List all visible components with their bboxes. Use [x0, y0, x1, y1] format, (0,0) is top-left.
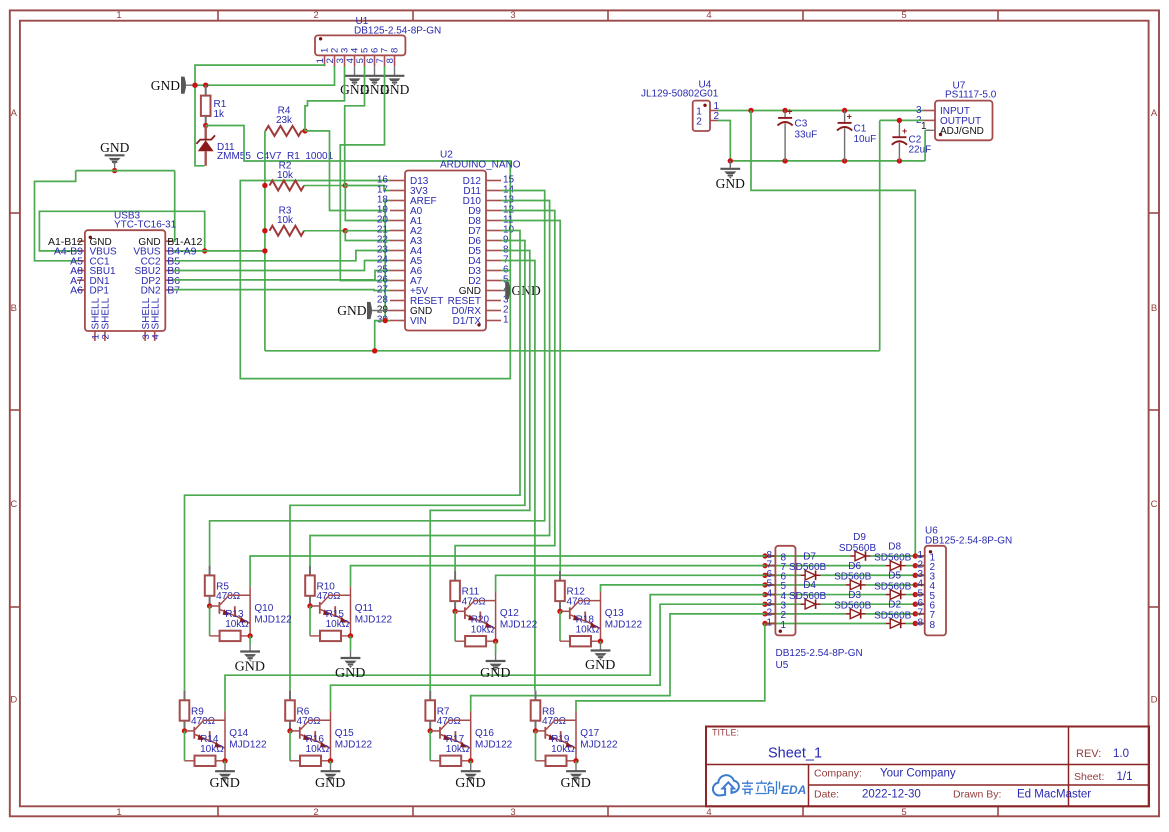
- wire D5 to R7 base feed: [430, 251, 530, 691]
- ground symbol Q11: [350, 636, 352, 651]
- junction input rail / U6 feed: [748, 108, 753, 113]
- wire R3 right down to A3 pin22: [345, 231, 390, 241]
- svg-text:5: 5: [901, 807, 906, 818]
- wire U1 pin3 to R4 right: [305, 66, 345, 131]
- junction GND rail / C2: [897, 158, 902, 163]
- svg-text:Company:: Company:: [814, 768, 862, 780]
- U5 pin1 marker: [779, 630, 782, 633]
- frame ticks bottom: [217, 806, 219, 816]
- diode D5 SD560B: [886, 594, 891, 596]
- resistor R20 10k base-emitter: [454, 611, 456, 641]
- svg-text:SD560B: SD560B: [834, 572, 872, 583]
- ground symbol Q14: [224, 761, 226, 764]
- connector U6 DB125-2.54-8P-GN box: [925, 546, 946, 636]
- junction R3 right: [343, 228, 348, 233]
- ground symbol Q16: [470, 761, 472, 764]
- diode D4 SD560B: [801, 603, 806, 605]
- svg-text:C: C: [10, 499, 17, 510]
- svg-text:DB125-2.54-8P-GN: DB125-2.54-8P-GN: [925, 536, 1012, 547]
- svg-text:D9: D9: [853, 532, 866, 543]
- wire Q17 collector to row1: [576, 624, 765, 712]
- junction GND rail / C3: [782, 158, 787, 163]
- wire D10 to R10 base feed: [310, 201, 550, 566]
- frame ticks right: [1149, 212, 1159, 214]
- svg-text:4: 4: [706, 807, 711, 818]
- svg-text:B7: B7: [167, 285, 180, 297]
- svg-text:Date:: Date:: [814, 789, 839, 801]
- wire USB top GND rail: [76, 170, 175, 172]
- wire D2 stub to column: [501, 280, 510, 282]
- svg-text:B: B: [11, 303, 17, 314]
- junction R9 bottom base node: [182, 728, 187, 733]
- wire USB SBU2 to A5 pin24: [173, 261, 390, 271]
- wire LED row 4 left segment: [765, 594, 886, 596]
- junction Q15 emitter node: [328, 758, 333, 763]
- wire U4 pin2 down to GND rail: [718, 121, 730, 161]
- resistor R12 470: [559, 571, 561, 581]
- USB3 pin1 marker: [89, 236, 92, 239]
- wire LED row 3 right segment: [821, 603, 916, 605]
- svg-text:Q11: Q11: [355, 603, 374, 614]
- svg-text:2: 2: [313, 807, 318, 818]
- ground bar at U2 pin29 left: [367, 302, 372, 319]
- wire LED row 4 right segment: [906, 594, 916, 596]
- svg-text:10uF: 10uF: [854, 134, 877, 145]
- U2 pin1 marker: [477, 323, 480, 326]
- svg-text:8: 8: [930, 620, 936, 631]
- transistor Q17 MJD122: [536, 730, 546, 732]
- U6 pin1 marker: [929, 550, 932, 553]
- svg-text:JL129-50802G01: JL129-50802G01: [641, 89, 719, 100]
- junction U5 pin row 2: [762, 611, 767, 616]
- junction GND rail / U4 drop: [728, 158, 733, 163]
- wire LED row 2 left segment: [765, 613, 846, 615]
- U1 pin1 marker: [319, 37, 322, 40]
- U2 right pin stubs: [486, 180, 501, 182]
- resistor R6 470: [289, 691, 291, 701]
- junction R2 right: [343, 183, 348, 188]
- wire USB A4-B9 VBUS loop: [39, 211, 204, 251]
- resistor R8 470: [535, 691, 537, 701]
- svg-text:GND: GND: [455, 776, 485, 791]
- svg-text:VIN: VIN: [410, 316, 427, 327]
- svg-text:Q12: Q12: [500, 608, 519, 619]
- svg-text:SD560B: SD560B: [874, 610, 912, 621]
- svg-text:1: 1: [116, 807, 121, 818]
- ground symbol at U1 pin 6: [374, 66, 376, 76]
- svg-text:MJD122: MJD122: [335, 739, 373, 750]
- resistor R2 10k: [270, 181, 305, 191]
- capacitor C2 22uF: [898, 120, 900, 137]
- junction 5V rail / VIN branch: [372, 348, 377, 353]
- svg-text:D5: D5: [888, 571, 901, 582]
- svg-text:DP1: DP1: [90, 286, 110, 297]
- svg-text:10k: 10k: [277, 170, 294, 181]
- transistor Q16 MJD122: [430, 730, 440, 732]
- wire R3 right to A2 pin21: [345, 230, 390, 232]
- wire USB VBUS row to 5V column: [173, 250, 265, 252]
- resistor R10 470: [309, 566, 311, 576]
- resistor R1 1k: [205, 85, 207, 95]
- svg-text:1: 1: [767, 617, 773, 628]
- junction U5 pin row 6: [762, 573, 767, 578]
- svg-text:SHELL: SHELL: [101, 297, 112, 329]
- wire U1 pin7 to A7 pin26: [340, 66, 390, 281]
- U4 pin stubs and numbers: [710, 110, 718, 112]
- svg-text:SD560B: SD560B: [874, 581, 912, 592]
- svg-text:+: +: [787, 107, 792, 117]
- svg-text:8: 8: [385, 58, 396, 63]
- svg-text:GND: GND: [512, 283, 541, 298]
- wire Q13 collector to row5: [601, 585, 766, 592]
- junction Q13 emitter node: [598, 639, 603, 644]
- junction VBUS loop: [202, 248, 207, 253]
- resistor R15 10k base-emitter: [309, 606, 311, 636]
- junction Q14 emitter node: [222, 758, 227, 763]
- svg-text:GND: GND: [315, 776, 345, 791]
- resistor R11 470: [454, 571, 456, 581]
- svg-text:DB125-2.54-8P-GN: DB125-2.54-8P-GN: [354, 26, 441, 37]
- wire D9 to R11 base feed: [455, 211, 555, 572]
- svg-text:PS1117-5.0: PS1117-5.0: [945, 90, 997, 101]
- logo JLC EDA: [713, 775, 806, 797]
- wire LED row 7 right segment: [906, 565, 916, 567]
- svg-text:SD560B: SD560B: [834, 601, 872, 612]
- svg-text:SD560B: SD560B: [789, 591, 827, 602]
- 5V rail horizontal: [265, 350, 880, 352]
- wire LED row 6 right segment: [821, 574, 916, 576]
- wire power GND rail: [730, 160, 925, 162]
- junction U6 pin row 5: [913, 592, 918, 597]
- wire D3 stub to column: [501, 270, 510, 272]
- svg-text:Sheet:: Sheet:: [1074, 771, 1104, 783]
- junction R6 bottom base node: [287, 728, 292, 733]
- junction VIN / AREF column: [383, 318, 388, 323]
- junction R10 bottom base node: [307, 603, 312, 608]
- USB3 pin stubs: [77, 240, 85, 242]
- svg-text:ADJ/GND: ADJ/GND: [940, 126, 984, 137]
- wire D4 to R8 base feed: [501, 261, 535, 691]
- diode D8 SD560B: [886, 565, 891, 567]
- svg-text:2: 2: [696, 116, 702, 127]
- ground symbol Q12: [495, 641, 497, 653]
- wire LED row 1 left segment: [765, 622, 886, 624]
- svg-text:10kΩ: 10kΩ: [551, 744, 575, 755]
- ground symbol left of R1: [181, 77, 186, 94]
- junction input rail / C1: [842, 108, 847, 113]
- connector U5 DB125-2.54-8P-GN box: [775, 546, 795, 636]
- wire GND rail to USB A5 pin (left loop): [35, 171, 78, 261]
- svg-text:REV:: REV:: [1076, 748, 1101, 760]
- wire R1 bottom across to D2/D3/D13 column: [206, 126, 511, 379]
- svg-text:GND: GND: [151, 78, 180, 93]
- frame ticks left: [10, 212, 20, 214]
- svg-text:Q14: Q14: [229, 728, 248, 739]
- ground symbol Q17: [575, 761, 577, 764]
- U7 pin stubs and numbers: [924, 110, 936, 112]
- svg-text:DN2: DN2: [141, 286, 161, 297]
- transistor Q12 MJD122: [455, 610, 465, 612]
- wire LED row 6 left segment: [765, 574, 801, 576]
- wire Q15 collector to row3: [331, 604, 766, 711]
- svg-text:TITLE:: TITLE:: [712, 728, 739, 738]
- svg-text:Q15: Q15: [335, 728, 354, 739]
- diode D7 SD560B: [801, 574, 806, 576]
- resistor R14 10k base-emitter: [184, 731, 186, 761]
- svg-text:GND: GND: [210, 776, 240, 791]
- junction U6 pin row 2: [913, 563, 918, 568]
- svg-text:SD560B: SD560B: [874, 552, 912, 563]
- svg-text:GND: GND: [480, 666, 510, 681]
- capacitor C3 33uF: [784, 111, 786, 118]
- U1 pins 1-8 stubs and numbers: [324, 55, 326, 66]
- svg-text:D: D: [1151, 695, 1158, 706]
- svg-text:MJD122: MJD122: [475, 739, 513, 750]
- title block outer: [706, 727, 1149, 807]
- resistor R16 10k base-emitter: [289, 731, 291, 761]
- title block dividers: [706, 764, 1149, 766]
- wire Q11 collector to row7: [351, 566, 766, 587]
- wire LED row 5 left segment: [765, 584, 846, 586]
- svg-text:EDA: EDA: [781, 783, 806, 797]
- svg-text:Q16: Q16: [475, 728, 494, 739]
- junction R2 left on 5V column: [262, 183, 267, 188]
- junction R8 bottom base node: [533, 728, 538, 733]
- svg-text:2022-12-30: 2022-12-30: [862, 789, 921, 801]
- connector U4 JL129-50802G01 box: [693, 101, 710, 131]
- wire USB DN2 to +5V pin27: [173, 289, 390, 292]
- junction GND rail / R1 top: [203, 83, 208, 88]
- svg-text:A6: A6: [70, 285, 83, 297]
- mcu U2 ARDUINO_NANO box: [405, 171, 486, 331]
- svg-text:1.0: 1.0: [1113, 748, 1129, 760]
- wire U7 ADJ/GND to GND rail: [925, 129, 930, 131]
- svg-text:MJD122: MJD122: [254, 614, 292, 625]
- ground symbol at U1 pin 8: [394, 66, 396, 76]
- svg-text:D7: D7: [803, 551, 816, 562]
- wire U1 pin5 to R2 right: [345, 66, 365, 186]
- resistor R13 10k base-emitter: [209, 606, 211, 636]
- svg-text:SD560B: SD560B: [839, 543, 877, 554]
- junction GND rail / pin1 drop: [192, 83, 197, 88]
- svg-text:10kΩ: 10kΩ: [471, 624, 495, 635]
- svg-text:8: 8: [390, 48, 401, 53]
- wire Q12 collector to row6: [496, 575, 765, 591]
- junction U6 pin row 4: [913, 582, 918, 587]
- wire Q10 collector to row8: [250, 556, 765, 586]
- svg-text:3: 3: [510, 10, 515, 21]
- svg-text:4: 4: [706, 10, 711, 21]
- wire input rail U4 pin1 to U7 INPUT: [718, 110, 924, 112]
- resistor R4 23k: [265, 126, 301, 136]
- junction Q17 emitter node: [573, 758, 578, 763]
- junction input rail / C3: [782, 108, 787, 113]
- svg-text:YTC-TC16-31: YTC-TC16-31: [114, 219, 177, 230]
- ground symbol Q15: [330, 761, 332, 764]
- wire LED row 5 right segment: [866, 584, 916, 586]
- U4 pin1 marker: [703, 104, 706, 107]
- connector U1 DB125-2.54-8P-GN box: [315, 35, 405, 55]
- svg-text:A: A: [11, 108, 18, 119]
- svg-text:22uF: 22uF: [909, 144, 932, 155]
- svg-text:+: +: [847, 112, 852, 122]
- wire D8 to R12 base feed: [501, 221, 560, 572]
- svg-text:D8: D8: [888, 542, 901, 553]
- svg-text:10kΩ: 10kΩ: [326, 619, 350, 630]
- svg-text:10k: 10k: [277, 215, 294, 226]
- junction R7 bottom base node: [428, 728, 433, 733]
- transistor Q14 MJD122: [185, 730, 195, 732]
- resistor R17 10k base-emitter: [429, 731, 431, 761]
- wire OUTPUT down to 5V rail: [879, 120, 881, 350]
- wire D7 to R9 base feed: [185, 231, 521, 691]
- transistor Q10 MJD122: [210, 605, 220, 607]
- diode D3 SD560B: [846, 613, 851, 615]
- resistor R9 470: [184, 691, 186, 701]
- U7 pin1 marker: [939, 133, 942, 136]
- wire Q16 collector to row2: [471, 614, 765, 711]
- resistor R5 470: [209, 566, 211, 576]
- ground symbol power rail: [729, 161, 731, 169]
- svg-text:U5: U5: [776, 660, 789, 671]
- svg-text:MJD122: MJD122: [500, 620, 538, 631]
- svg-text:D4: D4: [803, 580, 816, 591]
- transistor Q11 MJD122: [310, 605, 320, 607]
- junction OUTPUT / C2: [897, 118, 902, 123]
- svg-text:D3: D3: [848, 590, 861, 601]
- svg-text:10kΩ: 10kΩ: [576, 624, 600, 635]
- wire Q14 collector to row4: [225, 595, 765, 712]
- svg-text:10kΩ: 10kΩ: [306, 744, 330, 755]
- junction U5 pin row 3: [762, 602, 767, 607]
- junction USB GND rail: [112, 168, 117, 173]
- wire R4 right to AREF: [305, 131, 390, 211]
- svg-text:MJD122: MJD122: [605, 620, 643, 631]
- svg-text:D6: D6: [848, 561, 861, 572]
- svg-text:GND: GND: [335, 666, 365, 681]
- svg-text:MJD122: MJD122: [229, 739, 267, 750]
- svg-text:Ed MacMaster: Ed MacMaster: [1017, 789, 1091, 801]
- wire R2 right to 3V3 pin17: [345, 186, 390, 191]
- svg-text:1k: 1k: [214, 109, 226, 120]
- ground bar at U2 pin4 right: [501, 290, 505, 292]
- wire VIN to 5V rail: [375, 321, 390, 351]
- connector USB3 YTC-TC16-31 box: [85, 230, 165, 331]
- junction U5 pin row 4: [762, 592, 767, 597]
- wire LED row 3 left segment: [765, 603, 801, 605]
- svg-text:DB125-2.54-8P-GN: DB125-2.54-8P-GN: [776, 648, 863, 659]
- svg-text:10kΩ: 10kΩ: [225, 619, 249, 630]
- junction U6 pin row 8: [913, 621, 918, 626]
- junction U5 pin row 1: [762, 621, 767, 626]
- diode D2 SD560B: [886, 622, 891, 624]
- zener diode D11 ZMM55: [204, 126, 206, 140]
- transistor Q13 MJD122: [560, 610, 570, 612]
- junction R4 right: [302, 128, 307, 133]
- svg-text:A: A: [1151, 108, 1158, 119]
- svg-text:GND: GND: [100, 140, 129, 155]
- wire AREF column down to VIN node: [384, 211, 386, 321]
- ground symbol Q13: [600, 641, 602, 643]
- ground symbol at U1 pin 4: [354, 66, 356, 76]
- junction VBUS / 5V column: [262, 248, 267, 253]
- svg-text:1/1: 1/1: [1117, 771, 1133, 783]
- resistor R18 10k base-emitter: [559, 611, 561, 641]
- svg-text:MJD122: MJD122: [580, 739, 618, 750]
- svg-text:5: 5: [901, 10, 906, 21]
- junction Q12 emitter node: [493, 639, 498, 644]
- junction U6 pin row 1: [913, 553, 918, 558]
- wire U1 pin2 to GND rail: [191, 66, 335, 85]
- svg-text:MJD122: MJD122: [355, 614, 393, 625]
- svg-text:GND: GND: [561, 776, 591, 791]
- svg-text:Your Company: Your Company: [880, 768, 956, 780]
- junction U6 pin row 3: [913, 573, 918, 578]
- svg-text:SHELL: SHELL: [151, 297, 162, 329]
- junction Q16 emitter node: [468, 758, 473, 763]
- svg-text:Drawn By:: Drawn By:: [953, 789, 1001, 801]
- wire LED row 8 left segment: [765, 555, 851, 557]
- wire U7 OUTPUT row: [880, 119, 924, 121]
- wire LED row 8 right segment: [871, 555, 916, 557]
- wire LED row 7 left segment: [765, 565, 886, 567]
- svg-text:GND: GND: [585, 658, 615, 673]
- svg-text:3: 3: [510, 807, 515, 818]
- wire USB DP2 to A6 pin25: [173, 271, 390, 280]
- svg-text:GND: GND: [235, 660, 265, 675]
- svg-text:C3: C3: [795, 119, 808, 130]
- regulator U7 PS1117-5.0 box: [935, 101, 993, 141]
- junction U6 pin row 7: [913, 611, 918, 616]
- resistor R19 10k base-emitter: [535, 731, 537, 761]
- svg-text:Sheet_1: Sheet_1: [768, 746, 822, 762]
- svg-text:Q17: Q17: [580, 728, 599, 739]
- resistor R7 470: [429, 691, 431, 701]
- capacitor C1 10uF: [844, 111, 846, 123]
- svg-text:2: 2: [313, 10, 318, 21]
- svg-text:1: 1: [781, 620, 787, 631]
- wire GND rail to USB B1-A12 pin: [173, 171, 175, 242]
- wire 5V column R4 left down to 5V rail: [264, 131, 266, 351]
- junction U5 pin row 7: [762, 563, 767, 568]
- svg-text:+: +: [902, 126, 907, 136]
- wire R2 right down to A1 pin20: [345, 186, 390, 221]
- svg-text:ARDUINO_NANO: ARDUINO_NANO: [440, 160, 521, 171]
- junction R12 bottom base node: [557, 609, 562, 614]
- junction U5 pin row 8: [762, 553, 767, 558]
- wire USB CC2 to A4 pin23: [173, 251, 390, 261]
- svg-text:D2: D2: [888, 599, 901, 610]
- svg-text:C: C: [1151, 499, 1158, 510]
- frame ticks top: [217, 10, 219, 20]
- svg-text:4: 4: [151, 334, 162, 339]
- wire D11 to R5 base feed: [210, 191, 545, 566]
- diode D6 SD560B: [846, 584, 851, 586]
- svg-text:10kΩ: 10kΩ: [200, 744, 224, 755]
- svg-text:D: D: [10, 695, 17, 706]
- junction U5 pin row 5: [762, 582, 767, 587]
- svg-text:B: B: [1151, 303, 1157, 314]
- ground symbol Q10: [249, 636, 251, 644]
- svg-text:GND: GND: [716, 176, 745, 191]
- junction R1 bottom / D11: [203, 123, 208, 128]
- svg-text:SD560B: SD560B: [789, 562, 827, 573]
- resistor R3 10k: [270, 226, 305, 236]
- wire LED row 2 right segment: [866, 613, 916, 615]
- diode D9 SD560B: [851, 555, 856, 557]
- svg-text:1: 1: [503, 315, 509, 326]
- wire U1 pin1 loop to GND rail and D11 anode: [195, 65, 325, 166]
